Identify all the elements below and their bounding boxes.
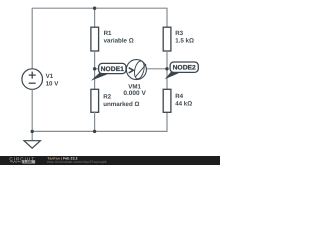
svg-text:R3: R3 [175,30,183,37]
footer bar [0,156,220,165]
svg-text:R2: R2 [103,94,111,101]
svg-text:LAB: LAB [24,160,32,164]
svg-text:NODE1: NODE1 [101,66,125,73]
node flag NODE2 [165,62,199,79]
label R2 unmarked [103,94,139,109]
svg-text:R4: R4 [175,93,183,100]
resistor R2 [91,89,99,112]
voltmeter VM1 [126,60,146,80]
ground [24,131,40,148]
node flag NODE1 [91,63,126,80]
label R1 variable [104,30,134,45]
junction: bottom wire / ground [31,130,34,133]
svg-text:NODE2: NODE2 [173,65,197,72]
svg-text:http://circuitlab.com/c/hpr57w: http://circuitlab.com/c/hpr57wjnvq2k [47,160,107,164]
wire: middle branch, R1 to R2 through node1 junction [94,51,96,90]
resistor R1 [91,27,99,51]
wire: middle branch, top wire to R1 [94,8,96,27]
wire: middle branch, R2 to bottom wire [94,112,96,131]
label V1 10 V [46,73,60,88]
wire: top horizontal net with left and right corner drops [32,8,167,69]
wire: voltmeter left lead [95,68,127,70]
footer logo resistor zigzag [10,161,22,163]
svg-text:V1: V1 [46,73,54,80]
svg-text:R1: R1 [104,30,112,37]
junction: node B voltmeter right / R3-R4 [165,67,168,70]
junction: bottom wire / R2 branch [93,130,96,133]
resistor R4 [163,89,171,112]
resistor R3 [163,27,171,51]
label R4 44 kOhm [175,93,192,108]
label R3 1.5 kOhm [175,30,194,45]
junction: node A voltmeter left / R1-R2 [93,67,96,70]
svg-text:0.000 V: 0.000 V [123,90,146,97]
svg-text:44 kΩ: 44 kΩ [175,100,192,107]
voltage source V1 [22,69,43,90]
junction: top wire / R1 branch [93,7,96,10]
footer logo LAB block [22,160,35,164]
svg-text:1.5 kΩ: 1.5 kΩ [175,37,194,44]
wire: right branch, R3 to R4 through node2 junction [166,51,168,90]
svg-text:variable Ω: variable Ω [104,37,134,44]
label VM1 0.000 V [123,83,146,97]
svg-text:10 V: 10 V [46,81,60,88]
wire: bottom horizontal net with left riser from V1 and right riser to R4 [32,89,167,131]
wire: voltmeter right lead [146,68,167,70]
svg-text:unmarked Ω: unmarked Ω [103,101,139,108]
